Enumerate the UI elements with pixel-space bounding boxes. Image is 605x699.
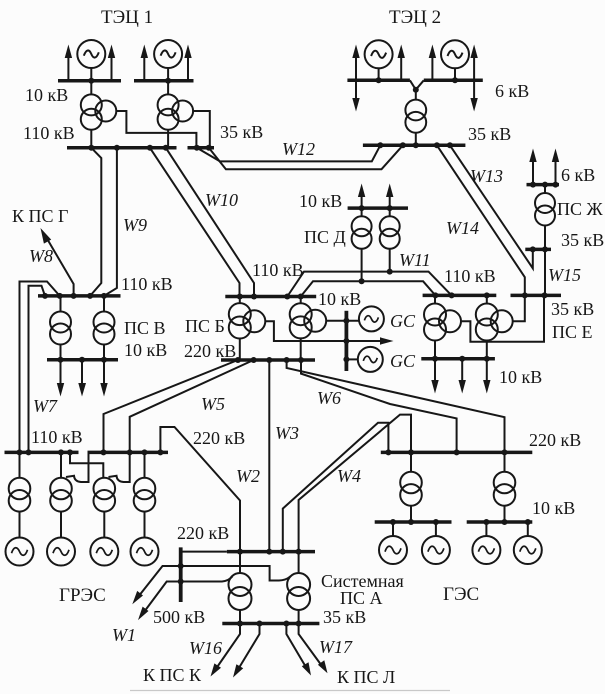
wire bus to G2 ГЭС <box>435 522 437 536</box>
bus 220 кВ ПС Б <box>221 358 315 362</box>
load arrow up <box>184 45 191 81</box>
load arrow up <box>65 45 72 81</box>
junction dot <box>42 293 48 299</box>
junction dot <box>298 294 304 300</box>
junction dot <box>237 621 243 627</box>
svg-text:W6: W6 <box>317 388 341 408</box>
wire T1 to 10kV bus <box>410 506 412 522</box>
junction dot <box>157 449 163 455</box>
junction dot <box>58 357 64 363</box>
bus 220 кВ ГРЭС <box>88 451 169 455</box>
wire 110 bus to T2 <box>300 297 302 304</box>
svg-text:GC: GC <box>390 311 416 331</box>
transformer ПС Ж 2-winding <box>535 193 555 226</box>
svg-text:ПС Е: ПС Е <box>552 322 593 342</box>
svg-text:W3: W3 <box>275 423 299 443</box>
junction dot <box>413 87 419 93</box>
svg-text:ПС Д: ПС Д <box>304 227 346 247</box>
line W7 circuit 2 <box>29 286 46 453</box>
load arrow down <box>78 360 86 397</box>
wire bus to T1 ГЭС <box>410 452 412 471</box>
junction dot <box>387 205 393 211</box>
bus 110 кВ ПС Е <box>423 294 497 298</box>
transformer T4 ГРЭС <box>134 478 156 512</box>
wire T1 to 220 bus <box>239 338 241 360</box>
junction dot <box>88 145 94 151</box>
load arrow down <box>57 360 64 397</box>
autotransformer AT1 ПС А <box>229 573 252 610</box>
line W9 circuit 1 <box>90 148 101 296</box>
junction dot <box>343 338 349 344</box>
wire G2 to 6kV bus <box>454 68 456 80</box>
bus 10 кВ ПС В <box>47 358 118 362</box>
generator G2 ТЭЦ2 <box>441 40 469 68</box>
transformer T1 ПС Б 3-winding <box>229 303 265 338</box>
wire bus to G3 ГЭС <box>485 522 487 536</box>
wire GC bus to GC2 <box>346 358 357 360</box>
svg-text:110 кВ: 110 кВ <box>121 274 173 294</box>
junction dot <box>387 269 393 275</box>
transformer T2 ТЭЦ1 3-winding <box>158 94 194 129</box>
svg-text:10 кВ: 10 кВ <box>299 191 342 211</box>
synchronous condenser GC1 <box>359 306 384 331</box>
svg-text:10 кВ: 10 кВ <box>318 289 361 309</box>
wire transformer to 35kV bus <box>544 226 546 250</box>
wire T1 tertiary to 35 bus <box>460 295 544 341</box>
wire 110 bus to T1 <box>239 297 241 304</box>
line W1 circuit 1 with arrow <box>132 566 180 604</box>
wire bus to T2 ГЭС <box>504 452 506 471</box>
svg-text:ПС А: ПС А <box>340 588 383 608</box>
wire 220 bus to T2 (tie) <box>66 452 89 482</box>
load arrow down <box>459 359 466 394</box>
svg-text:W5: W5 <box>201 394 225 414</box>
junction dot <box>235 357 241 363</box>
junction dot <box>251 357 257 363</box>
svg-text:ТЭЦ 1: ТЭЦ 1 <box>101 7 153 28</box>
svg-text:10 кВ: 10 кВ <box>532 498 575 518</box>
junction dot <box>251 294 257 300</box>
svg-text:ТЭЦ 2: ТЭЦ 2 <box>389 7 441 28</box>
junction dot <box>432 356 438 362</box>
svg-text:220 кВ: 220 кВ <box>529 430 581 450</box>
transformer T2 ГЭС <box>494 472 516 506</box>
load arrow down <box>431 359 438 394</box>
load arrow up <box>352 45 359 81</box>
junction dot <box>434 142 440 148</box>
wire T3 to G3 <box>103 512 105 538</box>
wire 110 bus to T3 ГРЭС <box>70 452 103 477</box>
generator G2 ГРЭС <box>47 538 75 566</box>
bus 35 кВ ТЭЦ1 <box>188 146 215 150</box>
wire T1 tertiary to 35kV bus <box>116 111 196 148</box>
line W7 circuit 1 <box>20 282 60 453</box>
bus 35 кВ ПС А <box>222 622 319 626</box>
transformer T1 ПС Д 2-winding <box>352 216 372 249</box>
junction dot <box>87 293 93 299</box>
line W16 feeder 2 with arrow <box>233 624 260 678</box>
junction dot <box>385 449 391 455</box>
svg-text:220 кВ: 220 кВ <box>184 341 236 361</box>
bus 35 кВ ПС Ж <box>525 248 551 252</box>
junction dot <box>376 77 382 83</box>
bus 110 кВ ПС Б <box>225 295 316 299</box>
line W5 circuit 1 <box>104 360 238 452</box>
junction dot <box>408 519 414 525</box>
bus 10 кВ ТЭЦ1 section 2 <box>134 79 194 83</box>
svg-text:10 кВ: 10 кВ <box>124 340 167 360</box>
wire 500 bus to AT2 <box>181 566 291 581</box>
wire G1 to 10kV bus <box>90 68 92 81</box>
bus 10 кВ ПС Д <box>348 206 408 210</box>
junction dot <box>408 449 414 455</box>
bus 500 кВ ПС А (vertical bar) <box>179 547 183 602</box>
svg-text:ПС В: ПС В <box>124 318 166 338</box>
junction dot <box>449 292 455 298</box>
junction dot <box>57 293 63 299</box>
load arrow down <box>100 360 107 397</box>
wire T2 to 220 bus <box>300 338 302 360</box>
line W2 <box>160 427 240 552</box>
junction dot <box>284 294 290 300</box>
transformer T1 ПС В 2-winding <box>50 312 71 345</box>
junction dot <box>178 579 184 585</box>
line W17 feeder 1 with arrow <box>286 624 311 676</box>
junction dot <box>433 519 439 525</box>
line W12 circuit 2 <box>209 145 403 169</box>
line W6 circuit 1 <box>287 360 505 452</box>
wire T1 tertiary and feeder arrow right <box>265 321 394 344</box>
svg-text:35 кВ: 35 кВ <box>561 230 604 250</box>
load arrow up <box>141 45 148 81</box>
svg-text:W8: W8 <box>29 246 53 266</box>
svg-text:ПС Ж: ПС Ж <box>557 199 604 219</box>
junction dot <box>542 292 548 298</box>
line W1 circuit 2 with arrow <box>138 582 181 621</box>
junction dot <box>390 519 396 525</box>
wire T2 tertiary to GC bus <box>326 320 360 322</box>
transformer T3 ГРЭС <box>94 478 116 512</box>
bus 6 кВ ТЭЦ2 section 1 <box>347 79 410 83</box>
transformer T1 ТЭЦ1 3-winding <box>81 94 117 129</box>
generator G4 ГРЭС <box>131 538 159 566</box>
svg-text:220 кВ: 220 кВ <box>193 428 245 448</box>
junction dot <box>178 563 184 569</box>
line W4 circuit 2 <box>299 415 411 552</box>
bus 110 кВ ПС В <box>38 294 121 298</box>
line W6 circuit 2 <box>301 360 457 452</box>
bus 10 кВ GC (vertical bar) <box>344 311 348 371</box>
wire bus to T1 <box>361 208 363 216</box>
wire T1 to 110kV bus <box>90 130 92 148</box>
junction dot <box>71 293 77 299</box>
wire bus to T2 ГРЭС <box>60 452 62 477</box>
svg-text:35 кВ: 35 кВ <box>551 299 594 319</box>
svg-text:ГРЭС: ГРЭС <box>59 585 106 606</box>
line W16 feeder 1 with arrow <box>211 624 241 677</box>
junction dot <box>343 318 349 324</box>
wire 500 bus to AT1 <box>181 576 233 581</box>
junction dot <box>502 519 508 525</box>
junction dot <box>88 78 94 84</box>
junction dot <box>530 182 536 188</box>
line W12 circuit 1 <box>197 145 380 161</box>
svg-text:W11: W11 <box>399 250 431 270</box>
wire 10kV bus to T1 <box>90 81 92 95</box>
svg-text:110 кВ: 110 кВ <box>444 266 496 286</box>
wire AT2 to 35 bus <box>298 610 300 624</box>
wire bus to G4 ГЭС <box>527 522 529 536</box>
wire T2 to 10kV bus <box>486 340 488 359</box>
svg-text:W9: W9 <box>123 215 147 235</box>
load arrow up <box>386 184 393 209</box>
svg-text:110 кВ: 110 кВ <box>23 123 75 143</box>
wire 6kV bus to transformer <box>544 185 546 193</box>
svg-text:500 кВ: 500 кВ <box>153 607 205 627</box>
scan artifact streak <box>130 690 450 692</box>
line W10 circuit 1 <box>150 148 240 297</box>
transformer T2 ПС Д 2-winding <box>380 216 400 249</box>
wire T2 to G2 <box>60 512 62 538</box>
junction dot <box>377 142 383 148</box>
junction dot <box>553 182 559 188</box>
wire T1 tap to W11 circuit 2 <box>361 249 363 281</box>
svg-text:ГЭС: ГЭС <box>443 584 479 605</box>
wire G1 to 6kV bus <box>378 68 380 80</box>
svg-text:W16: W16 <box>189 638 222 658</box>
junction dot <box>484 356 490 362</box>
junction dot <box>237 549 243 555</box>
junction dot <box>359 205 365 211</box>
bus 10 кВ ГЭС section 1 <box>375 520 452 524</box>
bus 10 кВ ПС Е <box>421 357 495 361</box>
generator G1 ГРЭС <box>6 538 34 566</box>
transformer T1 ГЭС <box>400 472 422 506</box>
transformer T1 ГРЭС <box>9 478 31 512</box>
wire 500 bus link to 220 bus <box>181 551 227 553</box>
svg-text:W10: W10 <box>205 190 238 210</box>
svg-text:W7: W7 <box>33 396 58 416</box>
svg-text:К ПС К: К ПС К <box>143 665 202 685</box>
junction dot <box>101 357 107 363</box>
wire 110 bus to T1 <box>434 295 436 304</box>
load arrow up <box>470 45 477 81</box>
junction dot <box>266 549 272 555</box>
load arrow up <box>552 149 559 185</box>
wire transformer to 35kV bus <box>415 133 417 146</box>
junction dot <box>452 77 458 83</box>
junction dot <box>26 449 32 455</box>
bus 10 кВ ГЭС section 2 <box>467 520 533 524</box>
svg-text:W17: W17 <box>319 637 353 657</box>
junction dot <box>502 449 508 455</box>
wire AT1 to 35 bus <box>239 610 241 624</box>
svg-text:35 кВ: 35 кВ <box>220 122 263 142</box>
svg-text:220 кВ: 220 кВ <box>177 523 229 543</box>
junction dot <box>296 549 302 555</box>
load arrow down <box>470 80 477 111</box>
generator G2 ТЭЦ1 <box>154 40 182 68</box>
line W17 feeder 2 with arrow <box>299 624 328 674</box>
transformer T2 ГРЭС <box>50 478 72 512</box>
junction dot <box>67 449 73 455</box>
bus 110 кВ ТЭЦ1 <box>67 146 177 150</box>
load arrow up <box>529 149 536 185</box>
line W5 circuit 2 <box>130 360 254 452</box>
svg-text:10 кВ: 10 кВ <box>499 367 542 387</box>
svg-text:35 кВ: 35 кВ <box>323 607 366 627</box>
junction dot <box>454 449 460 455</box>
junction dot <box>266 357 272 363</box>
svg-text:GC: GC <box>390 351 416 371</box>
transformer T1 ПС Е 3-winding <box>424 304 461 341</box>
svg-text:W1: W1 <box>112 625 136 645</box>
wire bus to T1 ГРЭС <box>19 452 21 477</box>
junction dot <box>525 519 531 525</box>
line W3 <box>268 360 270 553</box>
wire T2 tertiary to 35kV bus <box>193 111 210 148</box>
bus 35 кВ ТЭЦ2 <box>363 144 466 148</box>
line W9 circuit 2 <box>104 148 117 296</box>
synchronous condenser GC2 <box>358 347 383 372</box>
bus 220 кВ ГЭС <box>381 451 533 455</box>
transformer T2 ПС Б 3-winding <box>290 303 327 338</box>
junction dot <box>284 357 290 363</box>
svg-text:10 кВ: 10 кВ <box>25 85 68 105</box>
junction dot <box>17 449 23 455</box>
wire T1 to G1 <box>19 512 21 538</box>
bus 110 кВ ГРЭС <box>5 451 79 455</box>
junction dot <box>447 142 453 148</box>
wire T2 to 10kV bus <box>103 345 105 360</box>
svg-text:W4: W4 <box>337 466 361 486</box>
junction dot <box>484 292 490 298</box>
generator G2 ГЭС <box>422 536 450 564</box>
wire bus to T2 <box>389 208 391 216</box>
junction dot <box>114 145 120 151</box>
svg-text:К ПС Л: К ПС Л <box>337 667 395 687</box>
junction dot <box>58 449 64 455</box>
transformer T2 ПС Е 3-winding <box>476 304 513 341</box>
wire G2 to 10kV bus <box>167 68 169 81</box>
load arrow up <box>358 184 365 209</box>
junction dot <box>101 449 107 455</box>
bus 10 кВ ТЭЦ1 section 1 <box>58 79 121 83</box>
line W10 circuit 2 <box>166 148 254 297</box>
junction dot <box>542 246 548 252</box>
svg-text:К ПС Г: К ПС Г <box>12 206 68 226</box>
autotransformer AT2 ПС А <box>287 573 310 610</box>
junction dot <box>343 356 349 362</box>
line W8 with arrow to ПС Г <box>41 228 74 296</box>
junction dot <box>432 292 438 298</box>
generator G1 ТЭЦ2 <box>365 40 393 68</box>
junction dot <box>522 292 528 298</box>
wire junction to transformer <box>415 90 417 100</box>
wire T2 tap to W11 circuit 1 <box>389 249 391 272</box>
line W13 <box>450 145 533 268</box>
load arrow up <box>108 45 115 81</box>
transformer T2 ПС В 2-winding <box>94 312 115 345</box>
wire T4 to G4 <box>144 512 146 538</box>
bus 6 кВ ТЭЦ2 section 2 <box>424 79 483 83</box>
junction dot <box>142 449 148 455</box>
junction dot <box>296 621 302 627</box>
wire 220 bus to T3 (tie) <box>109 452 130 482</box>
load arrow down <box>483 359 490 394</box>
svg-text:6 кВ: 6 кВ <box>495 81 529 101</box>
svg-text:W12: W12 <box>282 139 315 159</box>
line W4 circuit 1 <box>283 423 389 552</box>
svg-text:W14: W14 <box>446 218 479 238</box>
generator G4 ГЭС <box>514 536 542 564</box>
wire bus to G1 ГЭС <box>392 522 394 536</box>
svg-text:W15: W15 <box>548 265 581 285</box>
wire T1 to 10kV bus <box>434 340 436 359</box>
junction dot <box>530 246 536 252</box>
junction dot <box>79 357 85 363</box>
junction dot <box>459 356 465 362</box>
load arrow up <box>429 45 436 81</box>
junction dot <box>280 549 286 555</box>
wire bus sections to transformer (V junction) <box>410 80 424 89</box>
junction dot <box>147 145 153 151</box>
wire 110 bus to T2 <box>486 295 488 304</box>
wire T2 to 10kV bus <box>504 506 506 522</box>
junction dot <box>206 145 212 151</box>
junction dot <box>483 519 489 525</box>
junction dot <box>257 621 263 627</box>
junction dot <box>237 294 243 300</box>
junction dot <box>400 142 406 148</box>
svg-text:W2: W2 <box>236 466 260 486</box>
junction dot <box>163 145 169 151</box>
junction dot <box>298 357 304 363</box>
wire T1 to 10kV bus <box>60 345 62 360</box>
junction dot <box>542 182 548 188</box>
svg-text:35 кВ: 35 кВ <box>468 124 511 144</box>
generator G1 ТЭЦ1 <box>77 40 105 68</box>
generator G1 ГЭС <box>379 536 407 564</box>
generator G3 ГЭС <box>472 536 500 564</box>
wire 220 bus to AT2 <box>298 552 300 573</box>
line W11 circuit 1 <box>287 272 451 297</box>
generator G3 ГРЭС <box>90 538 118 566</box>
wire bus to T4 ГРЭС <box>144 452 146 477</box>
svg-text:W13: W13 <box>470 166 503 186</box>
junction dot <box>283 621 289 627</box>
bus 35 кВ ПС Е <box>511 294 562 298</box>
svg-text:110 кВ: 110 кВ <box>31 427 83 447</box>
line W11 circuit 2 <box>301 281 436 296</box>
junction dot <box>101 293 107 299</box>
wire 220 bus to AT1 <box>239 552 241 573</box>
load arrow up <box>398 45 405 81</box>
svg-text:110 кВ: 110 кВ <box>252 260 304 280</box>
line W14 <box>437 145 525 294</box>
junction dot <box>359 278 365 284</box>
svg-text:6 кВ: 6 кВ <box>561 165 595 185</box>
wire bus to T2 <box>103 296 105 312</box>
wire 10kV bus to T2 <box>167 81 169 95</box>
bus 6 кВ ПС Ж <box>527 183 560 187</box>
load arrow down <box>352 80 359 111</box>
wire T2 tertiary to 35 bus <box>512 295 525 321</box>
wire bus to T1 <box>60 296 62 312</box>
junction dot <box>165 78 171 84</box>
line W15 <box>544 249 546 294</box>
junction dot <box>127 449 133 455</box>
